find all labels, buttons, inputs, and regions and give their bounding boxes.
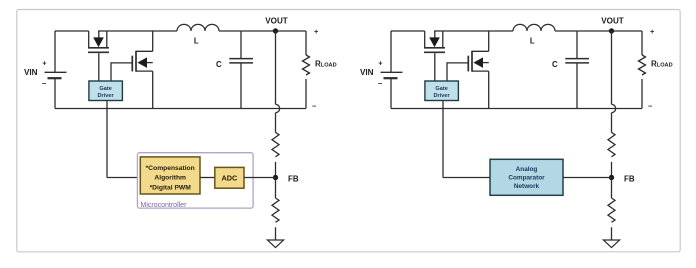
svg-text:VIN: VIN — [24, 68, 38, 77]
wire: top rail from battery to high-side FET — [391, 30, 425, 32]
wire — [611, 227, 613, 240]
gate driver U1 — [89, 81, 123, 101]
wire — [200, 177, 215, 179]
resistor: upper feedback divider — [608, 132, 615, 156]
svg-text:FB: FB — [624, 174, 635, 183]
transistor Q2 low-side MOSFET — [472, 50, 489, 52]
svg-text:Microcontroller: Microcontroller — [141, 202, 188, 209]
svg-text:C: C — [216, 60, 222, 69]
svg-text:+: + — [314, 27, 319, 36]
svg-text:VIN: VIN — [360, 68, 374, 77]
analog comparator network block U3 — [490, 159, 563, 195]
capacitor C — [240, 31, 242, 58]
wire: VOUT feedback drop — [275, 31, 277, 104]
wire: gate driver control input drop — [442, 101, 444, 178]
wire — [611, 162, 613, 198]
capacitor C — [576, 31, 578, 58]
resistor: lower feedback divider — [272, 198, 279, 222]
wire: Q2 gate lead to gate driver — [111, 63, 132, 81]
svg-text:Analog: Analog — [516, 166, 538, 173]
wire: top rail from inductor to RLOAD corner — [219, 30, 306, 32]
node VOUT — [273, 28, 278, 33]
svg-text:L: L — [530, 37, 535, 46]
transistor Q1 high-side MOSFET — [88, 31, 90, 48]
wire: comparator to FB node — [563, 177, 612, 179]
wire: ADC to FB node — [244, 177, 276, 179]
wire: Q1 gate lead to gate driver — [434, 53, 436, 81]
svg-text:−: − — [378, 79, 383, 88]
wire: Q2 source to ground rail — [488, 71, 490, 108]
resistor: lower feedback divider — [608, 198, 615, 222]
wire: FB signal into microcontroller — [107, 177, 140, 179]
node VOUT — [609, 28, 614, 33]
svg-text:Driver: Driver — [98, 93, 115, 99]
wire hop over ground rail — [276, 104, 280, 112]
microcontroller block U2 — [137, 153, 253, 208]
ADC block — [215, 167, 244, 188]
resistor RLOAD — [305, 31, 307, 55]
wire: Q1 gate lead to gate driver — [98, 53, 100, 81]
svg-text:Comparator: Comparator — [508, 175, 545, 182]
transistor Q2 low-side MOSFET — [136, 50, 153, 52]
svg-text:FB: FB — [288, 174, 299, 183]
svg-text:−: − — [42, 79, 47, 88]
wire — [275, 162, 277, 198]
wire: switch-node drop to Q2 drain — [152, 31, 154, 51]
transistor Q1 high-side MOSFET — [424, 31, 426, 48]
wire hop over ground rail — [612, 104, 616, 112]
wire: Q2 gate lead to gate driver — [447, 63, 468, 81]
battery VIN source (left circuit) — [54, 31, 56, 72]
wire — [275, 227, 277, 240]
resistor RLOAD — [641, 31, 643, 55]
svg-text:+: + — [42, 58, 47, 67]
wire: top rail from FET to inductor — [434, 30, 513, 32]
svg-text:*Compensation: *Compensation — [146, 165, 195, 172]
wire: gate driver control input drop — [106, 101, 108, 178]
gate driver U1 — [425, 81, 459, 101]
svg-text:−: − — [648, 101, 653, 110]
wire: top rail from battery to high-side FET — [55, 30, 89, 32]
wire: bottom (return) rail — [55, 108, 306, 110]
svg-text:Network: Network — [514, 183, 540, 190]
svg-text:+: + — [378, 58, 383, 67]
svg-text:VOUT: VOUT — [265, 17, 288, 26]
wire: bottom (return) rail — [391, 108, 642, 110]
svg-text:Gate: Gate — [435, 86, 447, 92]
svg-text:L: L — [194, 37, 199, 46]
battery VIN source (right circuit) — [390, 31, 392, 72]
wire: VOUT feedback drop — [611, 31, 613, 104]
resistor: upper feedback divider — [272, 132, 279, 156]
wire: Q2 source to ground rail — [152, 71, 154, 108]
svg-text:Gate: Gate — [99, 86, 111, 92]
ground — [267, 240, 283, 248]
svg-text:−: − — [312, 101, 317, 110]
compensation algorithm / digital PWM block — [140, 157, 200, 194]
wire: switch-node drop to Q2 drain — [488, 31, 490, 51]
svg-text:Driver: Driver — [434, 93, 451, 99]
svg-text:*Digital PWM: *Digital PWM — [150, 184, 192, 191]
ground — [603, 240, 619, 248]
svg-text:ADC: ADC — [221, 174, 238, 183]
svg-text:+: + — [650, 27, 655, 36]
wire: top rail from inductor to RLOAD corner — [555, 30, 642, 32]
wire: top rail from FET to inductor — [98, 30, 177, 32]
svg-text:Algorithm: Algorithm — [154, 175, 186, 182]
svg-text:C: C — [552, 60, 558, 69]
inductor L — [513, 24, 555, 31]
svg-text:VOUT: VOUT — [601, 17, 624, 26]
node FB — [609, 175, 614, 180]
wire: FB signal into analog comparator network — [443, 177, 490, 179]
node FB — [273, 175, 278, 180]
inductor L — [177, 24, 219, 31]
